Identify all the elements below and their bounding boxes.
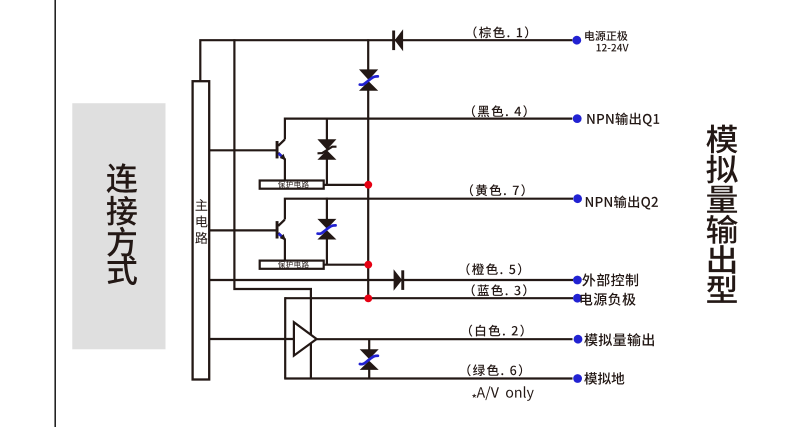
label (橙色.5) xyxy=(466,263,521,275)
grey title panel xyxy=(72,103,165,349)
TVS Z2 zener xyxy=(317,118,336,185)
wire amp left edge xyxy=(284,297,286,378)
left border line xyxy=(54,0,56,427)
label (黄色.7) xyxy=(470,184,525,196)
label 模拟地 xyxy=(584,372,624,385)
wire Q2 base xyxy=(209,229,277,231)
label (棕色.1) xyxy=(473,26,528,38)
wire top rail xyxy=(200,40,572,81)
label (蓝色.3) xyxy=(472,284,527,296)
label 电源负极 xyxy=(581,293,636,306)
wire box1 to bus xyxy=(323,184,368,186)
title 模拟量输出型 xyxy=(706,125,737,303)
wire NPN Q1 collector rail xyxy=(285,119,572,140)
transistor Q1 xyxy=(276,140,286,161)
wire NPN Q2 collector rail xyxy=(285,199,573,220)
junction node 3 xyxy=(364,295,372,303)
protection box 2 xyxy=(260,261,324,269)
transistor Q2 xyxy=(276,220,286,241)
wire 模拟量输出 xyxy=(316,338,573,340)
label 电源正极 xyxy=(585,31,627,41)
node 电源正极 terminal xyxy=(572,36,581,45)
wire box2 to bus xyxy=(323,264,368,266)
TVS Z4 bidirectional xyxy=(360,339,379,378)
junction node 1 xyxy=(364,181,372,189)
TVS Z3 bidirectional xyxy=(317,198,336,265)
TVS Z1 bidirectional xyxy=(359,69,378,90)
wire amp supply xyxy=(234,39,311,378)
wire bus lower xyxy=(367,90,369,299)
label 主电路 xyxy=(195,199,207,244)
label 模拟量输出 xyxy=(584,333,654,346)
diode D1 xyxy=(392,29,403,51)
protection box 1 xyxy=(260,181,324,189)
label 保护电路 1 xyxy=(278,181,309,188)
wire 电源负极 xyxy=(285,297,573,299)
node 模拟地 terminal xyxy=(573,374,582,383)
node NPN Q1 terminal xyxy=(573,114,582,123)
node 外部控制 terminal xyxy=(573,276,582,285)
title 连接方式 xyxy=(107,163,138,285)
wire bus upper xyxy=(367,39,369,70)
label 外部控制 xyxy=(582,273,638,286)
main circuit box 主电路 xyxy=(193,81,210,379)
node NPN Q2 terminal xyxy=(573,194,582,203)
diode D2 xyxy=(394,269,405,290)
wire Q2 emitter xyxy=(284,239,286,261)
label (黑色.4) xyxy=(472,105,527,117)
wire 模拟地 xyxy=(284,377,572,379)
junction node 2 xyxy=(364,261,372,269)
node 模拟量输出 terminal xyxy=(574,335,583,344)
op-amp buffer U1 xyxy=(294,322,317,355)
label NPN输出Q2 xyxy=(586,196,658,210)
node 电源负极 terminal xyxy=(573,294,582,303)
label A/V only xyxy=(472,386,534,401)
wire amp input xyxy=(209,338,295,340)
wire 外部控制 xyxy=(209,279,573,281)
label 保护电路 2 xyxy=(278,261,309,268)
label (白色.2) xyxy=(469,325,524,337)
label NPN输出Q1 xyxy=(587,113,659,127)
wire Q1 base xyxy=(209,149,277,151)
wire Q1 emitter xyxy=(284,159,286,181)
label (绿色.6) xyxy=(467,364,522,376)
label 12-24V xyxy=(597,44,629,52)
